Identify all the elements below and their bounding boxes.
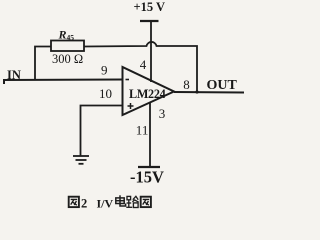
caption char 电: [116, 195, 126, 206]
svg-text:I/V: I/V: [97, 197, 114, 211]
caption char 图 (first): [69, 197, 79, 207]
svg-text:300 Ω: 300 Ω: [52, 52, 83, 66]
wire: IN input wire: [3, 79, 123, 82]
wire: output: [174, 91, 244, 94]
svg-text:10: 10: [99, 86, 112, 101]
wire: +15V down to op-amp pin 4: [150, 21, 152, 82]
resistor R45 body: [51, 41, 84, 52]
svg-text:45: 45: [67, 33, 75, 42]
svg-text:3: 3: [159, 106, 166, 121]
caption char 路: [126, 196, 138, 207]
svg-text:IN: IN: [7, 68, 21, 82]
wire: non-inverting input to ground: [81, 106, 123, 157]
svg-text:2: 2: [81, 197, 87, 211]
svg-text:9: 9: [101, 63, 108, 78]
wire: input terminal tick: [3, 79, 5, 84]
caption: 图2 I/V电路图 (CJK drawn as paths): [69, 195, 151, 210]
wire: branch up from IN node to resistor left lead: [35, 47, 51, 81]
svg-text:R: R: [58, 28, 67, 42]
-15V supply terminal bar: [138, 166, 160, 168]
wire: feedback from resistor right lead, hops over supply line, to output node: [84, 42, 197, 92]
op-amp inverting input minus sign: [126, 79, 130, 81]
junction: feedback meets output: [195, 90, 198, 93]
wire: op-amp pin 11 down to -15V: [149, 103, 151, 167]
paper background: [0, 0, 251, 217]
svg-text:LM224: LM224: [129, 87, 166, 101]
svg-text:8: 8: [183, 77, 190, 92]
ground symbol: [73, 155, 89, 157]
caption char 图 (second): [141, 197, 151, 207]
op-amp U1 LM224 triangle: [123, 67, 175, 115]
+15 V supply terminal bar: [140, 20, 159, 22]
svg-text:4: 4: [140, 57, 147, 72]
svg-text:+15 V: +15 V: [134, 0, 166, 14]
svg-text:-15V: -15V: [130, 168, 164, 187]
svg-text:11: 11: [136, 122, 149, 137]
op-amp non-inverting input plus sign: [128, 105, 134, 107]
svg-text:OUT: OUT: [207, 78, 238, 93]
